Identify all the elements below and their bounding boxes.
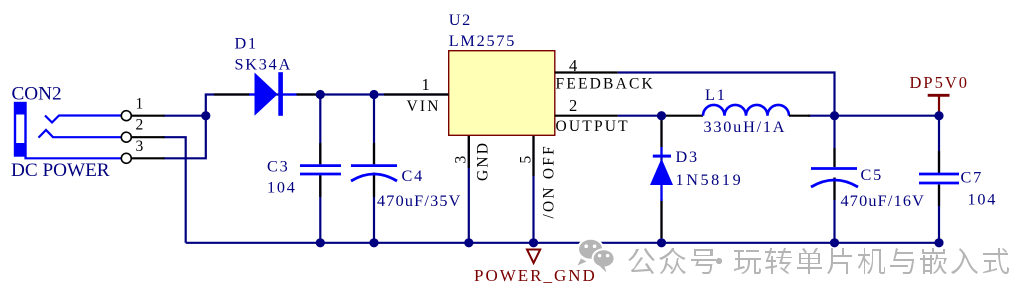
wire U2 ON/OFF pin to bus: [532, 135, 534, 243]
svg-text:POWER_GND: POWER_GND: [474, 266, 597, 285]
ground POWER_GND symbol: [527, 250, 540, 264]
junction node dots: [201, 90, 943, 248]
svg-text:C3: C3: [267, 157, 290, 175]
svg-text:CON2: CON2: [12, 83, 62, 104]
connector pin circles: [121, 111, 131, 164]
svg-text:C5: C5: [861, 166, 884, 184]
power DP5V0 symbol: [928, 95, 950, 116]
U2 pin 2 OUTPUT: [555, 96, 630, 135]
wire C7 vertical: [938, 116, 940, 243]
svg-text:2: 2: [136, 117, 144, 134]
wire pin2 down to ground bus: [163, 137, 186, 243]
capacitor C3 plates: [300, 166, 341, 174]
svg-text:3: 3: [136, 138, 144, 155]
svg-text:LM2575: LM2575: [449, 32, 516, 50]
svg-text:FEEDBACK: FEEDBACK: [556, 76, 655, 93]
wire C4 vertical: [373, 95, 375, 243]
wire output rail right of L1: [808, 115, 939, 117]
svg-text:U2: U2: [449, 11, 472, 29]
capacitor C5 plates: [811, 169, 858, 188]
svg-text:SK34A: SK34A: [235, 56, 293, 74]
svg-text:D3: D3: [676, 148, 699, 166]
svg-text:5: 5: [518, 156, 535, 164]
wire ground bus: [186, 242, 939, 244]
U2 pin 3 GND labels: [453, 141, 492, 181]
svg-text:3: 3: [453, 156, 470, 164]
svg-text:D1: D1: [235, 35, 258, 53]
wire pin1 to junction: [163, 115, 206, 117]
diode D1 body: [255, 72, 283, 116]
op U2 body: [449, 51, 555, 136]
wire U2 GND pin to bus: [468, 135, 470, 243]
svg-text:DP5V0: DP5V0: [910, 73, 970, 92]
svg-text:2: 2: [569, 96, 577, 115]
svg-text:1N5819: 1N5819: [676, 171, 744, 189]
svg-text:DC POWER: DC POWER: [11, 160, 110, 181]
connector switch contact pin2: [39, 130, 122, 138]
svg-text:330uH/1A: 330uH/1A: [704, 118, 787, 136]
svg-text:470uF/35V: 470uF/35V: [377, 192, 462, 210]
diode D1 pins: [214, 93, 317, 95]
svg-text:VIN: VIN: [407, 98, 441, 115]
svg-text:104: 104: [267, 178, 297, 196]
U2 pin 1 VIN: [384, 75, 449, 115]
diode D3 body: [650, 155, 673, 185]
inductor L1: [666, 105, 810, 116]
wire FEEDBACK to output node: [618, 73, 835, 116]
capacitor C4 plates: [351, 166, 397, 181]
svg-text:1: 1: [422, 75, 430, 94]
capacitor C7 plates: [919, 174, 959, 183]
svg-text:470uF/16V: 470uF/16V: [841, 192, 926, 210]
watermark wechat icon: [578, 239, 615, 273]
svg-text:GND: GND: [475, 141, 492, 181]
svg-text:L1: L1: [705, 86, 727, 104]
svg-text:C7: C7: [961, 169, 984, 187]
svg-text:C4: C4: [402, 167, 425, 185]
wire pin3 up to junction: [163, 116, 206, 159]
wire VIN rail: [206, 95, 449, 116]
svg-text:1: 1: [136, 95, 144, 112]
connector pin stubs: [131, 116, 164, 159]
connector switch contact pin1: [45, 116, 122, 123]
U2 pin 5 /ON OFF labels: [518, 144, 558, 218]
svg-text:/ON OFF: /ON OFF: [541, 144, 558, 218]
wire OUTPUT to D3 node: [618, 115, 662, 117]
svg-text:4: 4: [569, 56, 577, 75]
svg-text:OUTPUT: OUTPUT: [556, 118, 630, 135]
wire C3 vertical: [319, 95, 321, 243]
connector pin numbers 1 2 3: [136, 95, 144, 155]
wire D3 vertical: [660, 116, 662, 243]
wire C5 vertical: [833, 116, 835, 243]
connector CON2 body: [14, 102, 122, 158]
watermark chinese text strokes: [628, 248, 1009, 274]
svg-text:104: 104: [968, 191, 998, 209]
U2 pin 4 FEEDBACK: [555, 56, 655, 93]
